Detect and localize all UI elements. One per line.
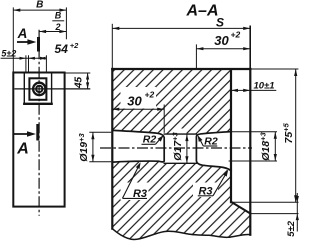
svg-text:A: A bbox=[17, 26, 28, 41]
svg-text:2: 2 bbox=[54, 22, 60, 32]
svg-text:5±2: 5±2 bbox=[1, 48, 16, 58]
svg-text:45: 45 bbox=[73, 76, 84, 89]
svg-text:+2: +2 bbox=[145, 90, 155, 100]
svg-text:R2: R2 bbox=[204, 136, 218, 148]
svg-text:30: 30 bbox=[127, 93, 142, 108]
svg-text:A–A: A–A bbox=[185, 3, 218, 20]
svg-text:+2: +2 bbox=[70, 41, 79, 50]
svg-text:R3: R3 bbox=[198, 186, 212, 198]
svg-text:+2: +2 bbox=[231, 30, 241, 40]
svg-text:B: B bbox=[55, 10, 62, 20]
svg-text:10±1: 10±1 bbox=[253, 80, 274, 91]
svg-text:A: A bbox=[16, 140, 29, 157]
svg-text:S: S bbox=[216, 16, 224, 30]
svg-text:R3: R3 bbox=[133, 188, 147, 200]
svg-text:30: 30 bbox=[214, 33, 229, 48]
svg-text:54: 54 bbox=[55, 42, 69, 56]
svg-text:B: B bbox=[36, 0, 43, 11]
svg-text:5±2: 5±2 bbox=[286, 220, 297, 236]
svg-text:R2: R2 bbox=[143, 134, 157, 146]
